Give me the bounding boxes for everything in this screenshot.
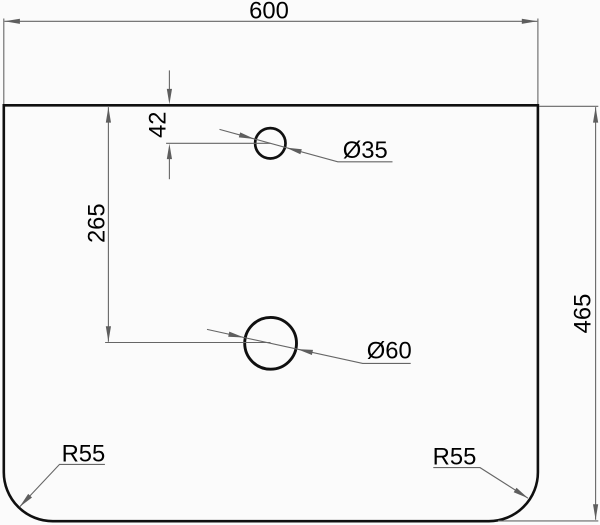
svg-text:600: 600 xyxy=(249,0,289,25)
svg-text:Ø60: Ø60 xyxy=(367,338,412,365)
dim 265 line xyxy=(107,107,109,342)
dim 600 line xyxy=(4,20,537,22)
dim 42 arrow down xyxy=(167,89,172,105)
dim 600 arrow left xyxy=(4,19,20,24)
dim 265 arrow top xyxy=(106,107,111,123)
leader D60 arrow right xyxy=(297,349,313,355)
dim 465 extension bottom xyxy=(498,520,598,522)
dim 600 arrow right xyxy=(522,19,538,24)
svg-text:265: 265 xyxy=(84,203,111,243)
svg-text:R55: R55 xyxy=(62,441,106,468)
leader R55 left arrow xyxy=(20,494,33,507)
dim 465 extension top xyxy=(539,105,598,107)
dim 465 arrow top xyxy=(593,107,598,123)
dim 42 extension to hole center xyxy=(166,142,270,144)
plate outline xyxy=(4,105,538,521)
dim 465 arrow bottom xyxy=(593,504,598,520)
dim 42 line upper xyxy=(168,70,170,89)
dim 265 arrow bottom xyxy=(106,326,111,342)
svg-text:R55: R55 xyxy=(433,444,477,471)
leader D35 line xyxy=(220,129,393,161)
leader D60 arrow left xyxy=(228,332,244,338)
leader D35 arrow left xyxy=(239,132,255,139)
dim 42 line lower xyxy=(168,158,170,179)
svg-text:Ø35: Ø35 xyxy=(343,137,388,164)
hole D60 xyxy=(245,317,297,369)
dim 465 line xyxy=(595,107,597,520)
leader D35 arrow right xyxy=(286,148,302,155)
dim 265 extension to hole center xyxy=(105,342,270,344)
leader R55 left line xyxy=(20,464,105,507)
dim 600 extension right xyxy=(537,19,539,105)
svg-text:42: 42 xyxy=(144,111,171,137)
leader D60 line xyxy=(207,329,411,363)
leader R55 right arrow xyxy=(514,488,529,499)
dim 42 arrow up xyxy=(167,144,172,160)
dim 600 extension left xyxy=(3,19,5,105)
hole D35 xyxy=(255,128,285,158)
leader R55 right line xyxy=(433,468,528,499)
svg-text:465: 465 xyxy=(570,294,597,334)
